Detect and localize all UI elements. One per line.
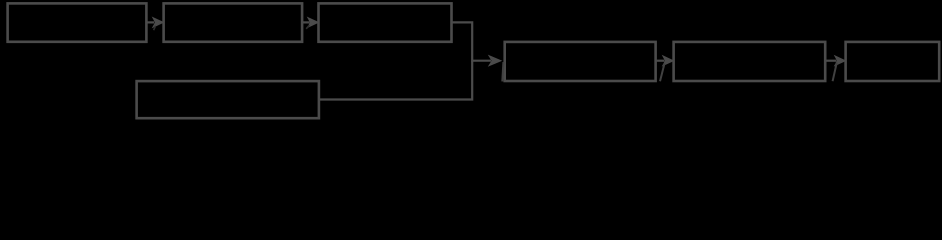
stray tail below arrowhead of box4-to-box5 wire — [660, 64, 665, 82]
process box 5 (middle row, center) — [674, 42, 826, 81]
stray tail below arrowhead of junction-to-box4 wire — [502, 62, 503, 81]
wire: box1 to box2 — [146, 21, 154, 23]
process box 6 (middle row, rightmost) — [846, 42, 940, 81]
arrowhead into box4 (stops short of box) — [490, 56, 501, 65]
process box 7 (bottom row) — [137, 81, 319, 118]
stray tail below arrowhead of box5-to-box6 wire — [833, 63, 837, 82]
process box 2 (top row, middle) — [164, 3, 303, 41]
faint wing streak below arrowhead into box3 — [306, 25, 309, 29]
faint wing streak below arrowhead into box2 — [154, 26, 156, 30]
arrowhead into box6 — [835, 56, 845, 65]
wire: bottom box right then up to junction — [319, 61, 472, 100]
arrowhead into box3 — [308, 18, 318, 27]
wire: box2 to box3 — [302, 21, 310, 23]
process box 1 (top row, leftmost) — [8, 3, 147, 41]
process box 3 (top row, right) — [319, 3, 452, 41]
wire: box3 elbow down toward box4 — [452, 22, 492, 60]
wire: box4 to box5 — [656, 60, 665, 62]
arrowhead into box5 — [663, 56, 673, 65]
process box 4 (middle row, left) — [505, 42, 656, 81]
wire: box5 to box6 — [825, 60, 836, 62]
arrowhead into box2 — [153, 18, 163, 27]
